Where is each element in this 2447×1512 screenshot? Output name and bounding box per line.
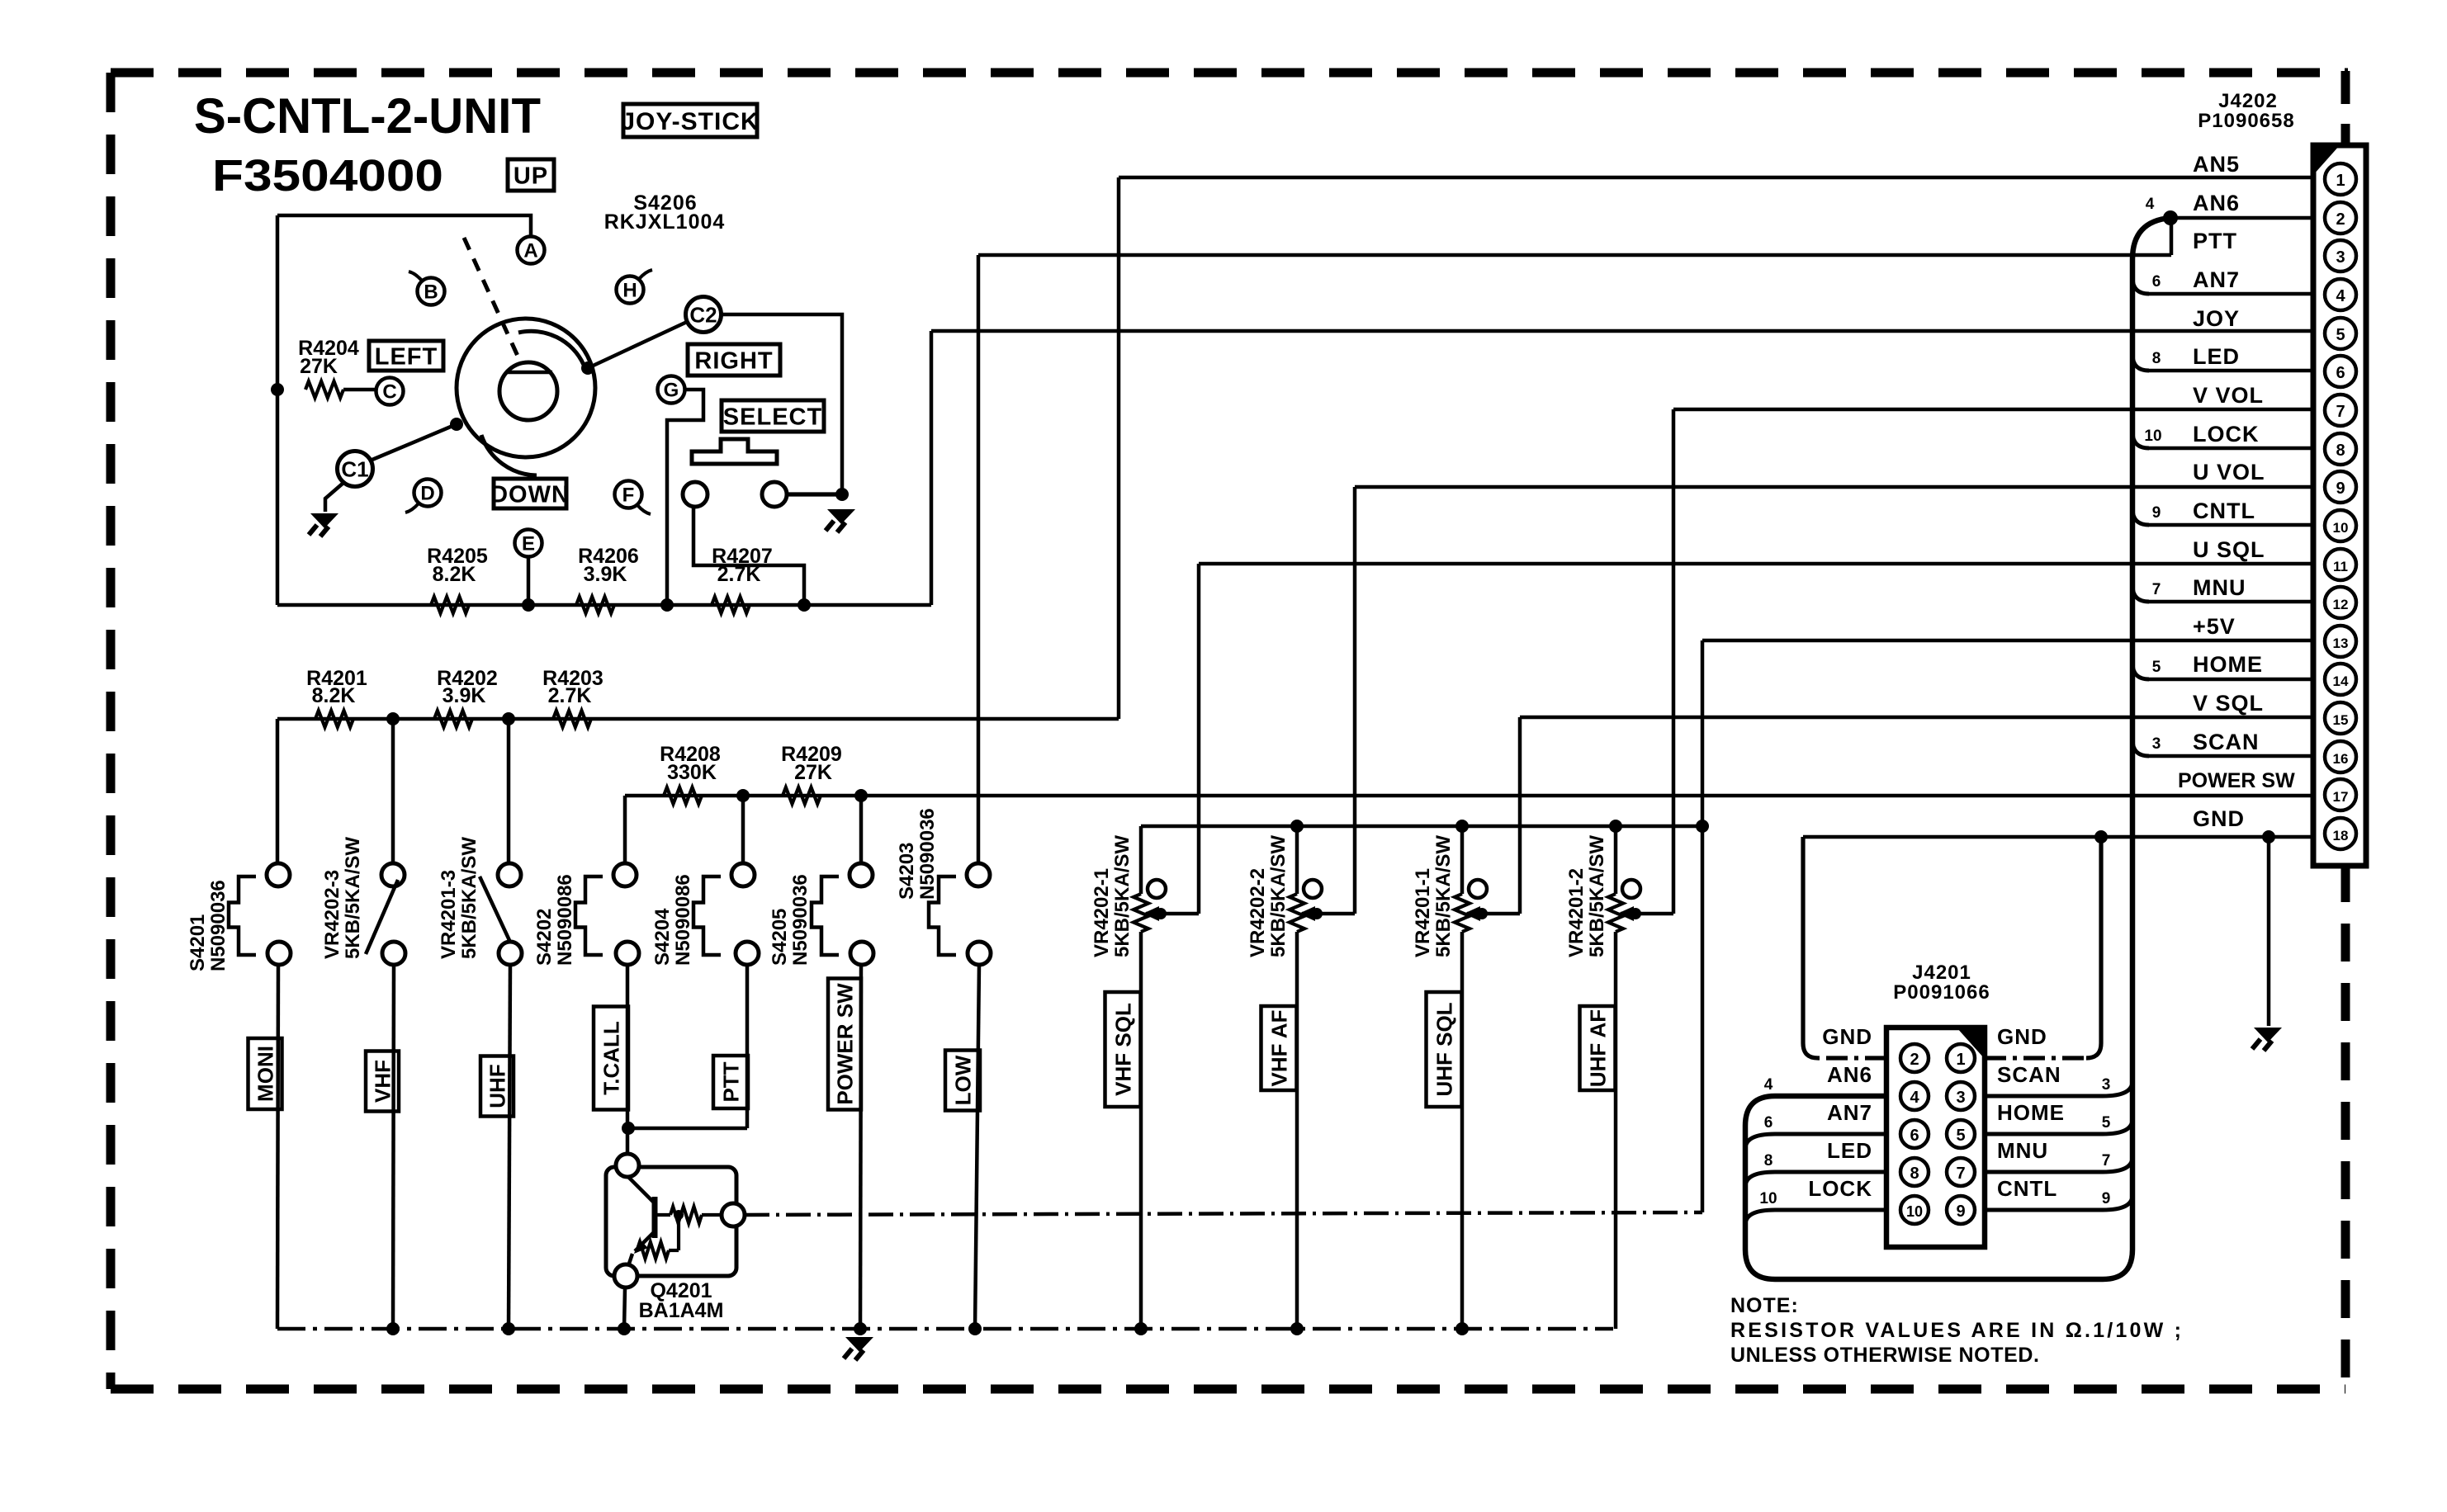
svg-text:18: 18 bbox=[2333, 828, 2349, 843]
wire E to common bus bbox=[527, 556, 531, 605]
harness branch curve to J4202 pin 6 bbox=[2132, 354, 2149, 371]
svg-text:330K: 330K bbox=[667, 761, 717, 784]
harness branch curve to J4202 pin 16 bbox=[2132, 739, 2149, 756]
svg-text:NOTE:: NOTE: bbox=[1730, 1294, 1799, 1317]
svg-text:5KB/5KA/SW: 5KB/5KA/SW bbox=[1111, 835, 1134, 957]
switch S4204 actuator bbox=[693, 876, 721, 955]
svg-text:12: 12 bbox=[2333, 597, 2349, 612]
svg-text:1: 1 bbox=[2336, 172, 2345, 190]
wire PTT to T.CALL net bbox=[628, 1127, 747, 1131]
wire J4201 pin2 GND loop bbox=[1818, 1056, 1886, 1060]
contact H (circled) with tick bbox=[617, 276, 644, 304]
connector J4201 pin 3 bbox=[1947, 1082, 1975, 1110]
harness branch to J4201 pin8 (LED) bbox=[1745, 1172, 1886, 1187]
pot VR4202-2 element (track) bbox=[1295, 826, 1299, 894]
resistor R4202 3.9K bbox=[434, 711, 472, 727]
divider bus R4201-R4203 (AN5 net) bbox=[277, 717, 1119, 721]
svg-text:CNTL: CNTL bbox=[1997, 1176, 2057, 1201]
wire VR4201-1 wiper to pin rail bbox=[1482, 912, 1520, 916]
svg-text:POWER SW: POWER SW bbox=[832, 983, 857, 1105]
svg-text:J4201: J4201 bbox=[1912, 962, 1971, 984]
label RIGHT (boxed) bbox=[688, 344, 780, 376]
svg-text:JOY-STICK: JOY-STICK bbox=[621, 108, 759, 135]
wire GND pin18 horizontal bbox=[1803, 835, 2313, 839]
connector J4202 pin 1 (AN5) bbox=[2325, 163, 2356, 195]
Q4201 internal base resistor R1 bbox=[655, 1213, 670, 1217]
Q4201 right terminal (base input) bbox=[722, 1203, 745, 1226]
svg-text:VR4202-3: VR4202-3 bbox=[321, 870, 343, 959]
node VHF switch junction bbox=[386, 712, 400, 725]
node G junction on common bus bbox=[660, 598, 674, 612]
svg-text:GND: GND bbox=[2193, 806, 2245, 831]
switch S4205 actuator bbox=[812, 876, 839, 955]
resistor R4208 330K bbox=[664, 787, 702, 804]
label JOY-STICK (boxed) bbox=[623, 104, 757, 137]
wire VR4201-2 wiper to pin rail bbox=[1635, 912, 1673, 916]
wire VR4202-2 wiper to pin rail bbox=[1317, 912, 1355, 916]
connector J4202 pin 3 (PTT) bbox=[2325, 240, 2356, 272]
label LOW (boxed, vertical) bbox=[945, 1051, 980, 1111]
svg-text:8.2K: 8.2K bbox=[433, 563, 476, 586]
wire S4202 bottom to Q4201 bbox=[626, 965, 630, 1157]
svg-text:N5090036: N5090036 bbox=[916, 808, 939, 900]
svg-text:PTT: PTT bbox=[718, 1061, 743, 1102]
label SELECT (boxed) bbox=[722, 400, 824, 432]
svg-text:9: 9 bbox=[2102, 1190, 2111, 1207]
node VR4201-1 on pot supply bus bbox=[1455, 820, 1469, 833]
switch VR4201-3 blade (open) bbox=[480, 876, 514, 949]
wire bus to VR4202-3 top bbox=[391, 719, 395, 863]
svg-text:5KB/5KA/SW: 5KB/5KA/SW bbox=[1586, 835, 1608, 957]
wire V VOL pin7 horizontal bbox=[1673, 408, 2313, 412]
contact C (circled) bbox=[376, 378, 404, 405]
svg-text:VR4202-1: VR4202-1 bbox=[1091, 868, 1113, 957]
svg-text:5: 5 bbox=[2152, 659, 2161, 676]
contact B (circled) with tick bbox=[418, 278, 445, 305]
ground below POWER SW node bbox=[845, 1337, 873, 1352]
harness branch to J4201 pin5 (HOME) bbox=[1985, 1119, 2132, 1134]
wire C1 to ground bbox=[325, 483, 343, 512]
wire Q4201 base net to +5V rail (chain line) bbox=[745, 1212, 1702, 1215]
svg-text:SCAN: SCAN bbox=[1997, 1062, 2061, 1087]
wire C2 to select-button common bbox=[721, 314, 842, 492]
terminal C1 (circled) bbox=[338, 451, 373, 487]
svg-text:3.9K: 3.9K bbox=[443, 684, 486, 707]
svg-text:UHF AF: UHF AF bbox=[1585, 1009, 1610, 1087]
svg-text:H: H bbox=[622, 280, 637, 302]
svg-text:J4202: J4202 bbox=[2218, 90, 2278, 112]
wire harness branch to connector at y=636 bbox=[2149, 523, 2313, 527]
svg-text:8: 8 bbox=[2336, 442, 2345, 460]
node GND ground-drop junction bbox=[2262, 830, 2275, 843]
switch S4203 (LOW) top terminal bbox=[967, 863, 990, 886]
connector J4201 pin 5 bbox=[1947, 1120, 1975, 1148]
node joystick wiper left contact bbox=[450, 418, 463, 431]
svg-text:2: 2 bbox=[1910, 1051, 1919, 1069]
svg-text:4: 4 bbox=[2146, 196, 2155, 213]
wire AN5 pin1 horizontal bbox=[1119, 176, 2313, 180]
svg-text:N5090036: N5090036 bbox=[207, 880, 230, 971]
Q4201 top terminal (collector) bbox=[616, 1154, 639, 1177]
svg-text:P1090658: P1090658 bbox=[2198, 110, 2294, 132]
svg-text:POWER SW: POWER SW bbox=[2178, 769, 2295, 792]
svg-text:9: 9 bbox=[2336, 480, 2345, 498]
transistor Q4201 outline box bbox=[606, 1167, 736, 1276]
node VR4201-1 wiper junction bbox=[1476, 908, 1488, 919]
svg-text:UHF SQL: UHF SQL bbox=[1432, 1002, 1456, 1096]
connector J4202 pin 5 (JOY) bbox=[2325, 318, 2356, 349]
node VR4202-1 on bottom bus bbox=[1134, 1322, 1148, 1335]
switch S4202 actuator bbox=[575, 876, 603, 955]
connector J4202 pin 12 (MNU) bbox=[2325, 587, 2356, 618]
svg-text:3: 3 bbox=[2336, 248, 2345, 267]
pot VR4202-1 wiper arrow bbox=[1146, 912, 1161, 916]
svg-text:V SQL: V SQL bbox=[2193, 691, 2264, 716]
Q4201 base bar bbox=[652, 1197, 658, 1238]
label VHF (boxed, vertical) bbox=[366, 1051, 399, 1112]
terminal C2 (circled) bbox=[686, 297, 722, 333]
svg-text:9: 9 bbox=[1956, 1203, 1965, 1221]
label UHF AF (boxed, vertical) bbox=[1580, 1006, 1616, 1090]
svg-text:U SQL: U SQL bbox=[2193, 537, 2265, 562]
svg-text:GND: GND bbox=[1997, 1024, 2047, 1049]
POWER SW bus with R4208/R4209 (pin17 net) bbox=[625, 794, 2313, 798]
wire JOY pin5 horizontal bbox=[931, 329, 2313, 333]
Q4201 internal base-emitter resistor R2 bbox=[637, 1242, 669, 1259]
label DOWN (boxed) bbox=[494, 479, 566, 508]
svg-text:S4204: S4204 bbox=[651, 908, 674, 966]
harness branch to J4201 pin9 (CNTL) bbox=[1985, 1195, 2132, 1210]
dashed unit border (right edge upper) bbox=[2341, 71, 2350, 147]
wire VR4202-1 wiper to pin rail bbox=[1161, 912, 1199, 916]
joystick knob inner circle bbox=[499, 362, 557, 420]
switch VR4202-3 (VHF) top terminal bbox=[381, 863, 405, 886]
svg-text:LOW: LOW bbox=[950, 1055, 975, 1105]
harness bundle: AN6 curve into bundle bbox=[2132, 218, 2170, 259]
svg-text:VHF SQL: VHF SQL bbox=[1110, 1003, 1135, 1096]
svg-text:N5090086: N5090086 bbox=[672, 874, 694, 966]
switch S4203 actuator bbox=[929, 876, 956, 955]
svg-text:8.2K: 8.2K bbox=[312, 684, 356, 707]
svg-text:S4201: S4201 bbox=[187, 914, 209, 971]
svg-text:10: 10 bbox=[2144, 428, 2161, 445]
wire JOY net vertical (joystick common to pin5) bbox=[930, 331, 934, 605]
label VHF SQL (boxed, vertical) bbox=[1105, 992, 1141, 1107]
switch S4202 (T.CALL) top terminal bbox=[613, 863, 637, 886]
svg-text:S-CNTL-2-UNIT: S-CNTL-2-UNIT bbox=[194, 88, 541, 144]
svg-text:11: 11 bbox=[2333, 559, 2348, 574]
svg-text:8: 8 bbox=[2152, 350, 2161, 367]
harness branch to J4201 pin7 (MNU) bbox=[1985, 1157, 2132, 1172]
node +5V on pot supply bus bbox=[1696, 820, 1709, 833]
harness branch to J4201 pin10 (LOCK) bbox=[1745, 1210, 1886, 1225]
wire AN6 pin2 horizontal bbox=[2170, 216, 2313, 220]
svg-text:U VOL: U VOL bbox=[2193, 460, 2265, 484]
contact E (circled) bbox=[515, 530, 542, 557]
wire AN5 net vertical (divider bus to pin1) bbox=[1117, 177, 1121, 719]
connector J4202 pin 11 (U SQL) bbox=[2325, 549, 2356, 580]
svg-text:27K: 27K bbox=[300, 355, 338, 378]
svg-text:RIGHT: RIGHT bbox=[694, 347, 773, 374]
svg-text:N5090036: N5090036 bbox=[789, 874, 812, 966]
node LOW on bottom bus bbox=[968, 1322, 982, 1335]
svg-text:AN7: AN7 bbox=[2193, 267, 2240, 292]
svg-text:GND: GND bbox=[1822, 1024, 1872, 1049]
svg-text:S4205: S4205 bbox=[769, 909, 791, 966]
svg-text:LED: LED bbox=[1827, 1138, 1872, 1163]
connector J4201 pin 10 bbox=[1900, 1196, 1929, 1224]
Q4201 emitter lead with arrow bbox=[635, 1231, 655, 1251]
pot VR4201-1 element (track) bbox=[1460, 826, 1465, 894]
svg-text:8: 8 bbox=[1910, 1165, 1919, 1183]
contact A (circled) bbox=[518, 237, 545, 264]
wire VHF SQL wiper rail up to U SQL pin bbox=[1197, 564, 1201, 914]
wire harness branch to connector at y=356 bbox=[2149, 292, 2313, 296]
switch VR4202-3 bottom terminal bbox=[382, 942, 405, 965]
svg-text:4: 4 bbox=[1910, 1089, 1919, 1107]
wire harness branch to connector at y=916 bbox=[2149, 754, 2313, 758]
svg-text:7: 7 bbox=[2336, 403, 2345, 421]
svg-text:G: G bbox=[664, 380, 679, 402]
dashed unit border (top edge) bbox=[111, 69, 2348, 78]
svg-text:HOME: HOME bbox=[2193, 652, 2263, 677]
svg-text:UP: UP bbox=[514, 163, 548, 189]
node VR4202-2 on pot supply bus bbox=[1290, 820, 1304, 833]
contact G (circled) bbox=[658, 376, 685, 404]
wire +5V pin13 horizontal bbox=[1702, 639, 2313, 643]
switch VR4202-3 blade (open) bbox=[366, 880, 398, 954]
svg-text:5KB/5KA/SW: 5KB/5KA/SW bbox=[1432, 835, 1455, 957]
svg-text:AN6: AN6 bbox=[2193, 191, 2240, 215]
node POWER SW on bottom bus bbox=[854, 1322, 867, 1335]
connector J4202 pin 2 (AN6) bbox=[2325, 202, 2356, 234]
connector J4202 pin 13 (+5V) bbox=[2325, 626, 2356, 657]
node VR4202-2 wiper junction bbox=[1311, 908, 1323, 919]
svg-text:6: 6 bbox=[1910, 1127, 1919, 1145]
harness branch curve to J4202 pin 10 bbox=[2132, 508, 2149, 525]
svg-text:DOWN: DOWN bbox=[490, 481, 570, 508]
node VHF on bottom bus bbox=[386, 1322, 400, 1335]
wire right contact to C2 bbox=[588, 322, 687, 368]
svg-text:5: 5 bbox=[1956, 1127, 1965, 1145]
Q4201 collector lead bbox=[628, 1177, 655, 1203]
wire harness branch to connector at y=449 bbox=[2149, 369, 2313, 373]
pot VR4202-2 wiper arrow bbox=[1302, 912, 1317, 916]
svg-text:LOCK: LOCK bbox=[2193, 422, 2260, 447]
pot VR4201-2 switch terminal (open circle) bbox=[1622, 880, 1640, 898]
svg-text:5: 5 bbox=[2336, 326, 2345, 344]
connector J4202 pin 9 (U VOL) bbox=[2325, 471, 2356, 503]
wire PTT pin3 net down to S4203 (LOW) bbox=[977, 255, 981, 863]
svg-text:AN6: AN6 bbox=[1827, 1062, 1872, 1087]
svg-text:3.9K: 3.9K bbox=[584, 563, 627, 586]
connector J4201 pin 8 bbox=[1900, 1158, 1929, 1186]
connector J4202 pin 6 (LED) bbox=[2325, 356, 2356, 387]
wire UHF SQL wiper rail up to V SQL pin bbox=[1518, 717, 1522, 914]
dashed unit border (left edge) bbox=[106, 73, 116, 1389]
svg-text:VHF AF: VHF AF bbox=[1266, 1010, 1291, 1087]
svg-text:LED: LED bbox=[2193, 344, 2240, 369]
wire S4201 to bottom bus bbox=[277, 965, 278, 1329]
node select junction on common bus bbox=[798, 598, 811, 612]
node AN6 junction bbox=[2163, 210, 2178, 225]
connector J4201 pin 7 bbox=[1947, 1158, 1975, 1186]
svg-text:AN7: AN7 bbox=[1827, 1100, 1872, 1125]
wire Q4201 emitter to bottom bus bbox=[624, 1288, 625, 1329]
connector J4202 pin 7 (V VOL) bbox=[2325, 395, 2356, 426]
switch S4205 bottom terminal bbox=[850, 942, 873, 965]
wire S4203 to bottom bus bbox=[975, 965, 979, 1329]
node VR4201-2 wiper junction bbox=[1630, 908, 1641, 919]
label UHF (boxed, vertical) bbox=[480, 1056, 514, 1117]
node Q4201 on bottom bus bbox=[618, 1322, 631, 1335]
select button right terminal bbox=[762, 482, 787, 507]
resistor R4201 8.2K bbox=[315, 711, 353, 727]
svg-text:15: 15 bbox=[2333, 712, 2349, 728]
svg-text:6: 6 bbox=[1764, 1114, 1773, 1132]
svg-text:UNLESS OTHERWISE NOTED.: UNLESS OTHERWISE NOTED. bbox=[1730, 1344, 2039, 1367]
svg-text:27K: 27K bbox=[794, 761, 832, 784]
node R4204 junction on left rail bbox=[271, 383, 284, 396]
bottom common bus (chain line) bbox=[277, 1327, 1613, 1331]
svg-text:JOY: JOY bbox=[2193, 306, 2240, 331]
svg-text:SELECT: SELECT bbox=[723, 404, 822, 430]
svg-text:4: 4 bbox=[1764, 1076, 1773, 1094]
node select button right junction bbox=[835, 488, 849, 501]
switch S4205 (POWER SW) top terminal bbox=[850, 863, 873, 886]
connector J4202 pin 14 (HOME) bbox=[2325, 664, 2356, 695]
node VR4202-1 wiper junction bbox=[1155, 908, 1167, 919]
node S4204 junction on POWER SW bus bbox=[736, 789, 750, 802]
wire select right terminal to C2 node bbox=[787, 492, 842, 496]
switch S4204 (PTT) top terminal bbox=[731, 863, 755, 886]
ground on GND net bbox=[2254, 1028, 2282, 1042]
svg-text:9: 9 bbox=[2152, 504, 2161, 522]
label PTT (boxed, vertical) bbox=[713, 1056, 748, 1108]
wire C1 to wiper contact bbox=[368, 424, 457, 461]
svg-text:10: 10 bbox=[2333, 520, 2349, 536]
wire bus to S4204 top bbox=[741, 796, 745, 863]
joystick stick shaft (dashed) bbox=[464, 238, 521, 363]
Q4201 bottom terminal (emitter) bbox=[614, 1264, 637, 1288]
svg-text:13: 13 bbox=[2333, 636, 2349, 651]
svg-text:C: C bbox=[382, 381, 396, 404]
harness bundle bottom loop bbox=[1745, 1096, 2132, 1279]
wire harness branch to connector at y=729 bbox=[2149, 600, 2313, 604]
node joystick right contact bbox=[581, 361, 594, 375]
svg-text:3: 3 bbox=[2152, 735, 2161, 753]
pot VR4201-2 element (track) bbox=[1614, 826, 1618, 894]
svg-text:2.7K: 2.7K bbox=[717, 563, 761, 586]
node VR4201-2 on pot supply bus bbox=[1609, 820, 1622, 833]
svg-text:6: 6 bbox=[2336, 364, 2345, 382]
label UHF SQL (boxed, vertical) bbox=[1427, 992, 1462, 1107]
wire VR4201-3 to bottom bus bbox=[509, 965, 510, 1329]
svg-text:3: 3 bbox=[2102, 1076, 2111, 1094]
label T.CALL (boxed, vertical) bbox=[594, 1007, 628, 1110]
svg-text:7: 7 bbox=[2152, 581, 2161, 598]
harness bundle vertical (J4202 to J4201) bbox=[2130, 259, 2136, 1250]
svg-text:F: F bbox=[622, 484, 635, 507]
Q4201 emitter to bottom terminal bbox=[628, 1254, 632, 1266]
joystick common bus (bottom of joystick block) bbox=[277, 603, 931, 607]
switch S4202 bottom terminal bbox=[616, 942, 639, 965]
svg-text:SCAN: SCAN bbox=[2193, 730, 2260, 754]
switch S4201 (MONI) top terminal bbox=[267, 863, 290, 886]
wire select left terminal to common bus bbox=[693, 507, 804, 605]
svg-text:8: 8 bbox=[1764, 1152, 1773, 1169]
contact F (circled) with tick bbox=[615, 481, 642, 508]
label UP (boxed) bbox=[508, 159, 554, 191]
joystick outer circle bbox=[457, 319, 595, 457]
svg-text:N5090086: N5090086 bbox=[554, 874, 576, 966]
svg-text:E: E bbox=[522, 533, 535, 555]
wire J4201 pin1 GND loop bbox=[1985, 1056, 2086, 1060]
wire joystick left rail bbox=[276, 215, 280, 605]
node S4205 junction on POWER SW bus bbox=[854, 789, 868, 802]
switch VR4201-3 bottom terminal bbox=[499, 942, 522, 965]
svg-text:T.CALL: T.CALL bbox=[599, 1021, 623, 1095]
svg-text:5KB/5KA/SW: 5KB/5KA/SW bbox=[1267, 835, 1290, 957]
label MONI (boxed, vertical) bbox=[248, 1038, 282, 1109]
resistor R4205 8.2K bbox=[431, 597, 469, 613]
connector J4202 pin 4 (AN7) bbox=[2325, 279, 2356, 310]
wire GND ground drop bbox=[2267, 837, 2271, 1026]
svg-text:MONI: MONI bbox=[253, 1046, 277, 1102]
connector J4202 pin 16 (SCAN) bbox=[2325, 741, 2356, 773]
resistor R4204 27K bbox=[305, 381, 343, 398]
wire joystick top-left feed (from left rail to contact A) bbox=[277, 215, 531, 237]
connector J4201 pin 6 bbox=[1900, 1120, 1929, 1148]
joystick knob top chord bbox=[505, 371, 552, 375]
svg-text:CNTL: CNTL bbox=[2193, 498, 2255, 523]
svg-text:VHF: VHF bbox=[370, 1060, 395, 1103]
joystick rotation arc upper bbox=[518, 331, 584, 365]
label VHF AF (boxed, vertical) bbox=[1261, 1006, 1297, 1090]
harness branch curve to J4202 pin 4 bbox=[2132, 277, 2149, 294]
svg-text:10: 10 bbox=[1906, 1203, 1923, 1220]
svg-text:D: D bbox=[420, 483, 434, 505]
wire VR4202-3 to bottom bus bbox=[393, 965, 394, 1329]
label LEFT (boxed) bbox=[369, 341, 443, 371]
switch VR4201-3 (UHF) top terminal bbox=[498, 863, 521, 886]
node E junction on common bus bbox=[522, 598, 535, 612]
node Q4201 internal base node bbox=[674, 1210, 684, 1220]
connector J4201 pin 2 bbox=[1900, 1044, 1929, 1072]
wire G to joystick common bus bbox=[667, 390, 703, 605]
svg-text:HOME: HOME bbox=[1997, 1100, 2065, 1125]
switch S4203 bottom terminal bbox=[968, 942, 991, 965]
svg-text:BA1A4M: BA1A4M bbox=[639, 1299, 724, 1322]
wire S4205 to bottom bus bbox=[860, 965, 861, 1329]
svg-text:14: 14 bbox=[2333, 673, 2349, 689]
connector J4202 pin 17 (POWER SW) bbox=[2325, 779, 2356, 810]
dashed unit border (bottom edge) bbox=[111, 1385, 2345, 1394]
node GND / J4201 pin1 junction bbox=[2094, 830, 2108, 843]
select pushbutton actuator bbox=[692, 439, 777, 464]
connector J4201 body bbox=[1886, 1028, 1985, 1247]
svg-text:17: 17 bbox=[2333, 789, 2349, 805]
wire bus corner down to S4202 top bbox=[623, 796, 627, 863]
pot VR4201-1 switch terminal (open circle) bbox=[1469, 880, 1487, 898]
svg-text:AN5: AN5 bbox=[2193, 152, 2240, 177]
ground below C2/select wire bbox=[827, 509, 855, 524]
wire V SQL pin15 horizontal bbox=[1520, 716, 2313, 720]
svg-text:VR4201-2: VR4201-2 bbox=[1565, 868, 1588, 957]
svg-text:6: 6 bbox=[2152, 273, 2161, 291]
resistor R4207 2.7K bbox=[712, 597, 750, 613]
harness branch to J4201 pin6 (AN7) bbox=[1745, 1134, 1886, 1149]
